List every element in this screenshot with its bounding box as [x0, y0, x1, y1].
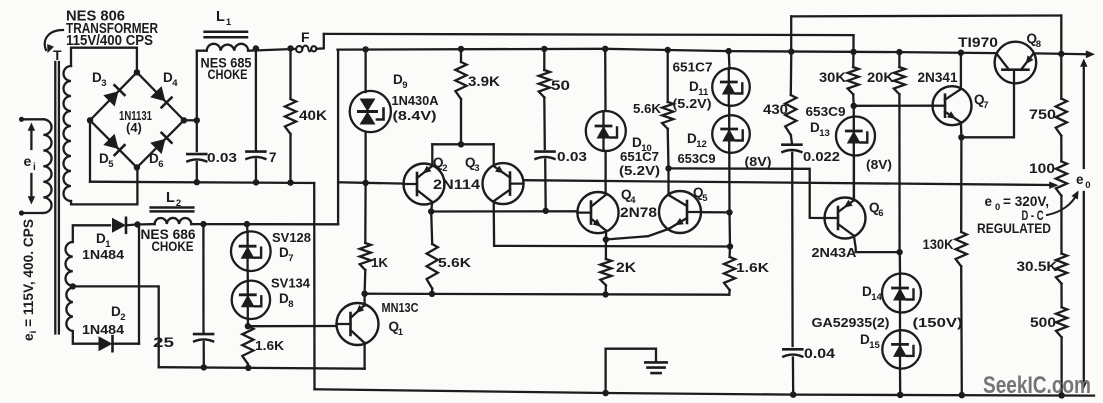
- svg-text:0.03: 0.03: [557, 149, 587, 164]
- label 653C9 D13 (8V): [806, 104, 893, 172]
- wire Q6 emitter: [854, 236, 903, 256]
- wire Q2 base line: [338, 182, 403, 183]
- svg-text:L: L: [216, 9, 225, 25]
- wire Q2 emitter to 5.6K: [428, 202, 434, 215]
- node L2 input: [134, 221, 140, 227]
- svg-text:L: L: [166, 190, 175, 206]
- svg-text:0: 0: [1085, 180, 1090, 191]
- svg-text:(8.4V): (8.4V): [393, 108, 437, 123]
- svg-text:750: 750: [1029, 107, 1056, 122]
- svg-text:= 320V,: = 320V,: [1003, 194, 1049, 209]
- potentiometer 100: [1056, 136, 1067, 254]
- wire Q4 emitter node: [603, 231, 609, 243]
- diode D6: [150, 133, 171, 154]
- label T: [53, 47, 62, 63]
- label Q2: [433, 155, 447, 174]
- ground: [602, 349, 666, 396]
- svg-text:500: 500: [1030, 315, 1056, 330]
- label e_0 at pot: [1076, 172, 1090, 191]
- label Q6: [869, 200, 883, 219]
- diode D5: [103, 134, 124, 155]
- svg-text:REGULATED: REGULATED: [977, 221, 1051, 236]
- transistor Q1 MN13C: [337, 303, 379, 345]
- resistor 30.5K: [1056, 254, 1067, 308]
- svg-text:F: F: [301, 29, 310, 45]
- label 0.04: [804, 346, 836, 361]
- diode D1: [112, 218, 137, 233]
- label Q5: [693, 185, 708, 204]
- label 50: [551, 78, 570, 93]
- svg-text:20K: 20K: [867, 70, 894, 85]
- label 500: [1030, 315, 1056, 330]
- diode D3: [103, 85, 124, 106]
- wire Q7 emitter to Q8 base: [961, 84, 1014, 137]
- label 0.022: [803, 149, 840, 164]
- label 1K: [371, 255, 389, 270]
- transformer upper secondary winding: [64, 48, 138, 205]
- resistor 5.6K (Q2 emitter): [427, 212, 438, 298]
- wire feedback line Q3 base to pot wiper: [524, 180, 1059, 189]
- wire line B from fuse: [324, 34, 854, 52]
- label 1.6K bias: [255, 338, 285, 353]
- wire Q1 base from D8 node: [248, 325, 337, 328]
- svg-text:5: 5: [108, 159, 114, 170]
- transformer T core: [55, 62, 59, 334]
- svg-text:(5.2V): (5.2V): [619, 163, 660, 178]
- wire bias negative rail y368: [159, 367, 365, 369]
- zener diode D13 653C9: [836, 106, 875, 198]
- diode D2: [99, 336, 140, 351]
- svg-text:30.5K: 30.5K: [1017, 259, 1058, 274]
- wire Q7 emitter node: [958, 122, 964, 140]
- svg-text:1N484: 1N484: [82, 322, 125, 337]
- fuse F: [296, 34, 324, 52]
- svg-text:130K: 130K: [923, 237, 954, 252]
- label TI970: [958, 34, 998, 50]
- label e_i = 115V 400 CPS (rotated): [21, 219, 39, 341]
- zener diode D8 SV134: [232, 271, 270, 326]
- svg-text:TI970: TI970: [958, 34, 998, 50]
- label D9 1N430A (8.4V): [392, 72, 440, 123]
- zener diode D14 GA52935: [882, 252, 921, 312]
- choke L1: [197, 32, 295, 121]
- wire left vertical x314: [313, 183, 316, 389]
- label MN13C Q1: [382, 300, 420, 338]
- node Q8 emitter / 750: [1058, 51, 1064, 57]
- zener reference diode D9 1N430A: [350, 46, 391, 183]
- label Q8: [1027, 31, 1041, 50]
- wire Q1 collector: [361, 291, 367, 306]
- label 2N43A: [812, 245, 858, 260]
- node bridge left vertex: [87, 117, 93, 123]
- svg-text:7: 7: [983, 100, 988, 111]
- choke L2: [138, 208, 339, 225]
- svg-text:25: 25: [153, 334, 174, 350]
- svg-text:(8V): (8V): [745, 154, 772, 169]
- resistor 430: [785, 48, 796, 135]
- svg-text:651C7: 651C7: [620, 149, 659, 164]
- curved arrow to e_0 line: [1047, 191, 1079, 216]
- label e_0 = 320V D-C REGULATED: [977, 194, 1051, 236]
- label 5.6K (Q2 emitter): [438, 255, 472, 270]
- label 20K: [867, 70, 894, 85]
- zener diode D7 SV128: [231, 221, 271, 271]
- label 1.6K (Q5): [736, 260, 770, 275]
- label D2 1N484: [82, 304, 125, 337]
- label Q4: [621, 187, 636, 206]
- wire Q6 base line from 5.6K node: [669, 168, 826, 218]
- label 1N1131 (4): [119, 108, 152, 135]
- svg-text:2: 2: [176, 198, 181, 209]
- label 3.9K: [468, 74, 500, 89]
- svg-text:1N484: 1N484: [82, 247, 125, 262]
- capacitor 0.022: [782, 135, 801, 346]
- resistor 50: [539, 46, 550, 149]
- wire bus left end down to L2 rail: [337, 50, 339, 225]
- transformer lower secondary winding with center tap: [66, 225, 111, 343]
- svg-text:2K: 2K: [616, 260, 636, 275]
- watermark SeekIC.com: [983, 372, 1091, 399]
- svg-text:SeekIC.com: SeekIC.com: [983, 372, 1091, 399]
- wire center tap: [70, 283, 159, 367]
- svg-text:3: 3: [474, 163, 479, 174]
- wire Q4-Q5 emitter link: [606, 229, 669, 240]
- svg-text:6: 6: [878, 208, 883, 219]
- e_0 measurement arrow: [1080, 59, 1087, 390]
- label D6: [149, 151, 163, 170]
- svg-text:1K: 1K: [371, 255, 389, 270]
- e_i measurement arrow: [24, 123, 37, 205]
- resistor 130K: [956, 137, 967, 398]
- svg-text:5.6K: 5.6K: [438, 255, 472, 270]
- diode D4: [150, 86, 171, 107]
- svg-text:653C9: 653C9: [806, 104, 846, 119]
- svg-text:0.022: 0.022: [803, 149, 840, 164]
- wire collector rail Q2 Q3: [432, 141, 493, 164]
- resistor 20K: [894, 49, 905, 252]
- wire Q7 base: [854, 105, 933, 107]
- resistor 2K: [600, 240, 611, 298]
- label 651C7 D11 (5.2V): [673, 60, 713, 112]
- svg-text:CHOKE: CHOKE: [208, 67, 248, 82]
- wire Q6 collector to D13: [853, 156, 855, 201]
- label L2: [166, 190, 181, 209]
- label D1 1N484: [82, 231, 125, 262]
- svg-text:MN13C: MN13C: [382, 300, 420, 315]
- zener diode D12 653C9: [712, 106, 750, 213]
- svg-text:2: 2: [442, 163, 447, 174]
- zener diode D11 651C7: [712, 48, 750, 106]
- svg-text:13: 13: [819, 128, 830, 139]
- label D14: [862, 284, 882, 303]
- wire D2 cathode up to L2 node: [138, 225, 140, 344]
- svg-text:i: i: [33, 162, 36, 173]
- label 130K: [923, 237, 954, 252]
- label 750: [1029, 107, 1056, 122]
- node bridge right vertex: [181, 117, 200, 123]
- label 30K: [819, 70, 846, 85]
- transistor Q8 TI970: [995, 42, 1037, 84]
- wire line A bypass: [791, 16, 1061, 54]
- svg-text:8: 8: [288, 299, 293, 310]
- resistor 1.6K (Q5): [724, 243, 735, 294]
- transformer primary winding: [19, 117, 52, 216]
- node D8 / 1.6K / Q1 base: [245, 323, 251, 329]
- label D10 651C7 (5.2V): [619, 135, 660, 178]
- resistor 1.6K bias: [242, 326, 253, 371]
- transistor Q7 2N341: [933, 86, 972, 125]
- zener diode D10 651C7: [586, 46, 626, 195]
- svg-text:(5.2V): (5.2V): [673, 96, 712, 111]
- node bottom bus junctions: [602, 390, 1064, 399]
- label NES 685 CHOKE: [201, 56, 252, 83]
- label Q3: [465, 155, 479, 174]
- resistor 40K: [285, 45, 296, 186]
- svg-text:2N43A: 2N43A: [812, 245, 858, 260]
- wire Q5 base: [702, 209, 732, 215]
- svg-text:1N430A: 1N430A: [392, 93, 440, 108]
- svg-text:430: 430: [763, 102, 788, 117]
- label F: [301, 29, 310, 45]
- resistor 3.9K: [455, 46, 466, 145]
- transistor Q6 2N43A: [825, 198, 866, 239]
- label 2N78: [620, 205, 658, 220]
- svg-text:GA52935(2): GA52935(2): [812, 315, 890, 330]
- svg-text:(4): (4): [126, 120, 142, 135]
- svg-text:1.6K: 1.6K: [255, 338, 285, 353]
- svg-text:e: e: [985, 194, 993, 209]
- label 40K: [299, 108, 327, 123]
- svg-text:30K: 30K: [819, 70, 846, 85]
- wire bottom bus: [315, 389, 1095, 395]
- capacitor 0.03 middle: [536, 152, 555, 214]
- transistor Q4 2N78: [577, 192, 618, 233]
- label 7: [269, 150, 277, 165]
- svg-text:15: 15: [869, 340, 880, 351]
- svg-text:2N78: 2N78: [620, 205, 658, 220]
- svg-text:1: 1: [398, 327, 404, 338]
- resistor 5.6K (Q5 collector): [662, 47, 673, 172]
- svg-text:4: 4: [172, 78, 178, 89]
- transistor Q3 2N114: [483, 163, 524, 204]
- node bridge bottom vertex: [134, 164, 140, 170]
- svg-text:115V/400 CPS: 115V/400 CPS: [66, 33, 153, 49]
- capacitor 0.04: [783, 349, 802, 398]
- label 30.5K: [1017, 259, 1058, 274]
- label 25: [153, 334, 174, 350]
- transistor Q2 2N114: [404, 164, 445, 205]
- svg-text:6: 6: [158, 159, 163, 170]
- svg-text:50: 50: [551, 78, 570, 93]
- svg-text:5.6K: 5.6K: [633, 101, 662, 116]
- svg-text:0: 0: [995, 202, 1000, 213]
- wire Q3 emitter down and right to 1.6K node: [494, 201, 730, 246]
- svg-text:7: 7: [288, 253, 293, 264]
- svg-text:e: e: [24, 153, 32, 169]
- node bridge top vertex: [134, 69, 140, 75]
- capacitor 25: [194, 221, 213, 371]
- label NES 686 CHOKE: [141, 227, 196, 254]
- wire bridge left vertex down: [89, 120, 91, 181]
- label 2K: [616, 260, 636, 275]
- label L1: [216, 9, 232, 28]
- curved arrow to T: [45, 30, 63, 53]
- wire Q1 emitter: [363, 343, 365, 369]
- svg-text:CHOKE: CHOKE: [152, 239, 194, 254]
- wire rail y294: [365, 294, 730, 295]
- capacitor 7: [246, 45, 265, 185]
- svg-text:SV128: SV128: [272, 231, 311, 245]
- wire Q7 collector to bus: [958, 50, 964, 90]
- svg-text:5: 5: [702, 193, 708, 204]
- svg-text:3.9K: 3.9K: [468, 74, 500, 89]
- svg-text:40K: 40K: [299, 108, 327, 123]
- svg-text:0.03: 0.03: [207, 150, 237, 165]
- label D15: [860, 332, 880, 351]
- svg-text:12: 12: [696, 139, 707, 150]
- svg-text:SV134: SV134: [271, 277, 310, 291]
- svg-text:1.6K: 1.6K: [736, 260, 770, 275]
- wire main positive bus: [338, 49, 1096, 58]
- svg-text:(8V): (8V): [866, 157, 892, 172]
- label Q7: [974, 92, 988, 111]
- zener diode D15 GA52935: [882, 313, 920, 399]
- svg-text:14: 14: [871, 292, 882, 303]
- transistor Q5 2N78: [659, 191, 701, 233]
- label 0.03 middle: [557, 149, 587, 164]
- capacitor 0.03 input: [187, 120, 206, 185]
- label D12 653C9 (8V): [678, 131, 772, 169]
- svg-text:9: 9: [402, 80, 407, 91]
- svg-text:e: e: [1076, 172, 1084, 187]
- svg-text:2N341: 2N341: [918, 70, 958, 85]
- resistor 500: [1056, 307, 1067, 398]
- svg-text:1: 1: [226, 17, 232, 28]
- label 2N341: [918, 70, 958, 85]
- wire 5.6K to Q5 collector: [667, 168, 669, 194]
- label D5: [99, 151, 114, 170]
- label D3: [92, 70, 106, 89]
- label 0.03 input: [207, 150, 237, 165]
- label SV128 D7: [272, 231, 311, 264]
- label 2N114: [433, 177, 481, 192]
- svg-text:8: 8: [1036, 39, 1041, 50]
- bridge rectifier arms: [90, 72, 184, 167]
- svg-text:651C7: 651C7: [673, 60, 713, 75]
- label 430: [763, 102, 788, 117]
- wire Q5 base node to 1.6K node: [728, 212, 731, 246]
- svg-text:(150V): (150V): [913, 315, 963, 330]
- node D9 bottom / Q2 base: [362, 180, 368, 186]
- svg-text:7: 7: [269, 150, 277, 165]
- resistor 30K: [848, 49, 859, 109]
- svg-text:653C9: 653C9: [678, 151, 716, 166]
- wire emitter node line y211: [431, 210, 577, 212]
- label D4: [163, 70, 178, 89]
- resistor 1K: [360, 183, 371, 294]
- svg-text:2N114: 2N114: [433, 177, 481, 192]
- label SV134 D8: [271, 277, 310, 311]
- wire negative rail y182: [90, 182, 314, 183]
- label GA52935(2) (150V): [812, 315, 963, 330]
- label 100: [1029, 161, 1055, 176]
- resistor 750: [1056, 54, 1067, 136]
- svg-text:100: 100: [1029, 161, 1055, 176]
- svg-text:0.04: 0.04: [804, 346, 836, 361]
- svg-text:T: T: [53, 47, 62, 63]
- svg-text:3: 3: [101, 78, 106, 89]
- label NES 806 TRANSFORMER 115V/400 CPS: [66, 9, 158, 50]
- label 5.6K (Q5 collector): [633, 101, 662, 116]
